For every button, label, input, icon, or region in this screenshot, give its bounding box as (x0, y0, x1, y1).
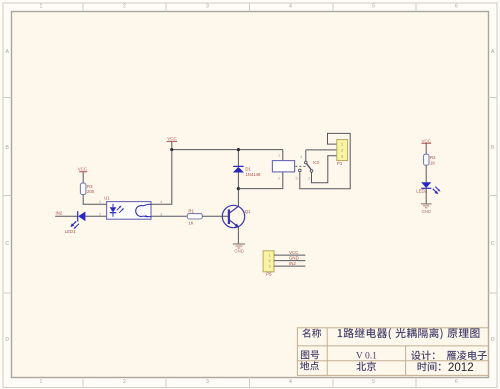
svg-text:6: 6 (455, 3, 458, 9)
svg-text:GND: GND (234, 249, 244, 254)
city text 北京 (356, 361, 375, 371)
wire U1 pin3 to R1 (151, 215, 187, 217)
svg-text:U1: U1 (104, 196, 110, 201)
svg-text:IN2: IN2 (289, 261, 296, 266)
resistor R3 (80, 183, 86, 195)
junction D1/collector/coil (237, 187, 240, 190)
svg-text:3: 3 (206, 3, 209, 9)
title text 1路继电器(光耦隔离)原理图 (338, 328, 480, 339)
svg-text:3: 3 (206, 379, 209, 385)
power VCC (above R3) (78, 167, 88, 184)
junction at VCC drop (170, 148, 173, 151)
resistor R2 (424, 154, 430, 165)
time label 时间: (418, 362, 441, 371)
title block label 名称 (302, 328, 321, 337)
label R1 value 1K (188, 209, 194, 226)
svg-text:V 0.1: V 0.1 (356, 351, 377, 362)
svg-text:D: D (491, 337, 495, 343)
label D1 value 1N4148 (245, 167, 261, 178)
svg-text:A: A (5, 49, 9, 55)
title block grid (297, 328, 488, 376)
led LED2 (421, 182, 440, 194)
svg-text:GND: GND (422, 209, 432, 214)
svg-text:R3: R3 (87, 184, 93, 189)
label R3 value 200 (87, 184, 95, 194)
svg-text:6: 6 (455, 379, 458, 385)
wire R2 to LED2 (425, 165, 427, 182)
svg-text:2: 2 (123, 379, 126, 385)
svg-text:4: 4 (289, 379, 292, 385)
wire D1 anode down (237, 173, 239, 189)
wire common pin5 to P1 pin1 (300, 133, 350, 188)
svg-text:Q1: Q1 (245, 209, 251, 214)
wire IN2 to LED1 (55, 215, 77, 217)
wire VCC rail horizontal (172, 149, 283, 151)
svg-text:D: D (5, 337, 9, 343)
wire LED1 to U1 pin2 (85, 215, 106, 217)
relay K3 switch contact pin3 (310, 170, 313, 173)
wire P5 pin2 net GND (274, 260, 305, 262)
relay K3 switch arm (307, 164, 312, 170)
title block label 图号 (301, 351, 319, 360)
wire R3 to U1 pin1 (83, 195, 106, 205)
svg-text:2012: 2012 (448, 361, 474, 374)
svg-text:1K: 1K (188, 221, 193, 226)
svg-text:VCC: VCC (289, 250, 298, 255)
svg-text:P1: P1 (337, 161, 343, 166)
U1 internal LED (110, 204, 124, 217)
wire LED2 to GND (425, 188, 427, 204)
relay K3 coil (272, 161, 294, 172)
title block label 地点 (300, 361, 319, 370)
svg-text:C: C (491, 241, 495, 247)
U1 internal phototransistor (136, 204, 151, 217)
wire rail to D1 (237, 150, 239, 167)
svg-text:2: 2 (268, 259, 270, 263)
svg-text:R2: R2 (430, 155, 436, 160)
svg-text:LED1: LED1 (65, 229, 76, 234)
svg-text:GND: GND (289, 256, 299, 261)
svg-text:IN2: IN2 (56, 211, 63, 216)
designer text 设计: 雁凌电子 (411, 350, 487, 359)
svg-text:1N4148: 1N4148 (245, 172, 261, 177)
wire P5 pin1 net VCC (274, 254, 305, 256)
wire Q1 emitter down (237, 227, 239, 244)
svg-text:VCC: VCC (421, 138, 431, 143)
relay actuation dashed link (295, 165, 306, 167)
svg-text:5: 5 (372, 379, 375, 385)
label R2 value 1K (430, 155, 436, 165)
svg-text:200: 200 (87, 189, 95, 194)
wire Q1 collector up (237, 189, 239, 207)
wire switch pin4 to P1 pin2 (306, 149, 337, 151)
svg-text:1: 1 (268, 254, 270, 258)
wire VCC down to U1 pin4 (151, 150, 172, 205)
P5 pin numbers 1 2 3 (268, 254, 270, 269)
op-amp U1 optocoupler body (107, 202, 151, 220)
svg-text:VCC: VCC (78, 167, 88, 172)
svg-text:1: 1 (341, 143, 343, 147)
relay K3 common pin5 (299, 169, 302, 172)
svg-text:1: 1 (40, 379, 43, 385)
junction rail/D1 (237, 148, 240, 151)
svg-text:1: 1 (40, 3, 43, 9)
zone dividers left/right (3, 98, 497, 294)
wire junction to relay coil bottom (238, 172, 282, 189)
svg-text:D1: D1 (245, 167, 251, 172)
diode D1 1N4148 (233, 166, 244, 172)
wire R1 to Q1 base (202, 215, 228, 217)
svg-text:5: 5 (372, 3, 375, 9)
zone labels rows A-D (5, 49, 495, 343)
svg-text:3: 3 (341, 154, 343, 158)
resistor R1 (187, 214, 202, 219)
ground GND (right) (421, 204, 432, 214)
power VCC (right) (421, 138, 431, 154)
svg-text:VCC: VCC (167, 136, 177, 141)
connector P5 (263, 251, 274, 272)
svg-text:B: B (5, 145, 9, 151)
connector P1 (337, 140, 348, 161)
svg-text:3: 3 (268, 265, 270, 269)
svg-text:R1: R1 (188, 209, 194, 214)
P1 pin numbers 1 2 3 (341, 143, 343, 159)
wire P5 pin3 net IN2 (274, 265, 305, 267)
transistor Q1 (222, 205, 244, 227)
svg-text:P5: P5 (266, 272, 272, 277)
ground GND (below Q1) (233, 244, 245, 254)
svg-text:K3: K3 (313, 160, 319, 165)
svg-text:C: C (5, 241, 9, 247)
power VCC (top rail) (167, 136, 178, 149)
wire contact pin3 to P1 pin3 (312, 156, 337, 183)
wire rail to relay coil top (282, 150, 284, 161)
svg-text:A: A (491, 49, 495, 55)
svg-text:1K: 1K (430, 160, 435, 165)
led LED1 (70, 211, 85, 229)
svg-text:2: 2 (123, 3, 126, 9)
zone dividers top/bottom (83, 3, 416, 388)
svg-text:B: B (491, 145, 495, 151)
relay K3 switch pin4 terminal (305, 150, 308, 164)
svg-text:4: 4 (289, 3, 292, 9)
svg-text:2: 2 (341, 149, 343, 153)
